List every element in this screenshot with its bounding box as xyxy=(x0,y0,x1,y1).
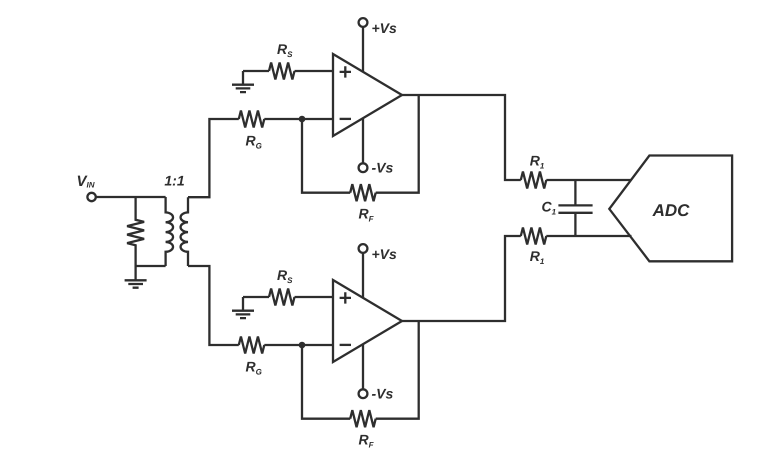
resistor RS (bottom) xyxy=(269,289,295,306)
wire primary bottom rail xyxy=(136,265,166,267)
resistor RG (bottom) xyxy=(239,337,264,354)
wire R1 top to ADC xyxy=(546,179,631,181)
svg-text:R1: R1 xyxy=(530,152,545,170)
svg-text:RG: RG xyxy=(246,133,262,151)
wire secondary top to RG1 xyxy=(188,119,239,197)
wire RF to output (top) xyxy=(376,95,419,193)
ground input xyxy=(125,266,147,288)
node -Vs terminal (top) xyxy=(359,163,368,172)
resistor RF (bottom) xyxy=(350,410,376,427)
wire -Vs stem (bottom) xyxy=(362,344,364,389)
node junction dot (bottom inverting input) xyxy=(299,342,306,349)
op-amp U2 (bottom) xyxy=(333,280,402,362)
svg-text:RG: RG xyxy=(246,359,262,377)
resistor RG (top) xyxy=(239,111,264,128)
svg-text:VIN: VIN xyxy=(77,173,95,190)
svg-text:C1: C1 xyxy=(542,198,557,216)
wire RG to inverting input (top) xyxy=(264,118,333,120)
wire ground to RS (top) xyxy=(243,70,269,72)
wire RF to output (bottom) xyxy=(376,321,419,419)
node VIN input terminal xyxy=(87,193,95,201)
wire RS to noninverting input (bottom) xyxy=(295,296,334,298)
op-amp U2 minus symbol xyxy=(340,344,351,346)
wire RG to inverting input (bottom) xyxy=(264,344,333,346)
resistor R1 (top) xyxy=(521,172,547,189)
resistor RS (top) xyxy=(269,63,295,80)
wire -Vs stem (top) xyxy=(362,118,364,163)
resistor R1 (bottom) xyxy=(521,228,547,245)
node -Vs terminal (bottom) xyxy=(359,389,368,398)
op-amp U1 minus symbol xyxy=(340,118,351,120)
node junction dot (top inverting input) xyxy=(299,116,306,123)
op-amp U1 plus symbol xyxy=(340,66,351,77)
svg-text:+Vs: +Vs xyxy=(372,246,398,262)
transformer T1 secondary winding xyxy=(181,197,188,266)
transformer T1 primary winding xyxy=(166,197,173,266)
svg-text:1:1: 1:1 xyxy=(164,173,184,189)
ground RS (top) xyxy=(232,71,254,92)
wire R1 bottom to ADC xyxy=(546,235,631,237)
node +Vs terminal (top) xyxy=(359,18,368,27)
wire secondary bottom to RG2 xyxy=(188,266,239,345)
wire U2 output to R1 bottom xyxy=(402,236,521,321)
node +Vs terminal (bottom) xyxy=(359,244,368,253)
resistor RF (top) xyxy=(350,184,376,201)
wire U1 output to R1 top xyxy=(402,95,521,180)
svg-text:RF: RF xyxy=(359,206,375,224)
op-amp U2 plus symbol xyxy=(340,292,351,303)
svg-text:RS: RS xyxy=(277,41,293,59)
wire +Vs stem (top) xyxy=(362,27,364,72)
wire +Vs stem (bottom) xyxy=(362,253,364,298)
wire ground to RS (bottom) xyxy=(243,296,269,298)
wire feedback left (bottom) xyxy=(302,345,350,419)
svg-text:RS: RS xyxy=(277,267,293,285)
op-amp U1 (top) xyxy=(333,54,402,136)
svg-text:RF: RF xyxy=(359,432,375,450)
svg-text:-Vs: -Vs xyxy=(372,159,394,175)
wire feedback left (top) xyxy=(302,119,350,193)
svg-text:R1: R1 xyxy=(530,248,545,266)
wire VIN to transformer primary top xyxy=(96,196,166,198)
capacitor C1 xyxy=(558,180,592,236)
resistor shunt (input termination) xyxy=(127,197,144,266)
ground RS (bottom) xyxy=(232,297,254,318)
svg-text:-Vs: -Vs xyxy=(372,385,394,401)
svg-text:ADC: ADC xyxy=(652,201,691,220)
svg-text:+Vs: +Vs xyxy=(372,20,398,36)
wire RS to noninverting input (top) xyxy=(295,70,334,72)
ADC block xyxy=(609,156,732,262)
